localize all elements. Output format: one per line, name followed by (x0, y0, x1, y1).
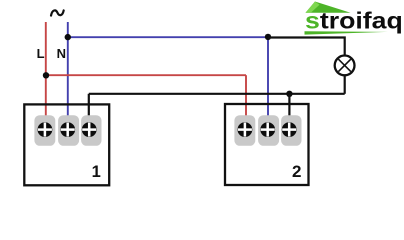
wire black switch 1 terminal 3 riser (88, 94, 90, 116)
switch 2 screw 1 (238, 122, 253, 137)
wire N neutral vertical (blue) from source to switch 1 terminal 2 (67, 22, 69, 116)
wire L phase horizontal (red) to switch 2 (46, 74, 246, 76)
switch 1 terminal block 3 (81, 115, 101, 146)
svg-text:N: N (57, 46, 66, 61)
switch 2 screw 3 (282, 122, 297, 137)
node C junction on L wire (43, 72, 49, 78)
switch 2 terminal block 2 (258, 115, 279, 146)
wire black switch 2 terminal 3 drop (288, 94, 290, 116)
switch 1 terminal block 2 (58, 115, 79, 146)
AC source tilde symbol (51, 10, 64, 15)
wire black bottom horizontal return (89, 93, 345, 95)
logo underline swoosh (305, 31, 389, 34)
node D junction on return wire (286, 91, 292, 97)
wire red vertical drop to switch 2 terminal 1 (245, 75, 247, 116)
switch box 2 (225, 104, 309, 185)
svg-text:stroifaq: stroifaq (305, 8, 403, 34)
switch 2 terminal block 3 (281, 115, 301, 146)
wire blue vertical drop to switch 2 terminal 2 (267, 37, 269, 116)
wire N neutral horizontal (blue) to node B (68, 36, 268, 38)
wire black lamp bottom drop (344, 76, 346, 94)
wire L phase vertical (red) from source to switch 1 terminal 1 (45, 22, 47, 116)
switch 2 terminal block 1 (234, 115, 255, 146)
svg-text:1: 1 (92, 163, 101, 181)
switch 1 terminal block 1 (34, 115, 55, 146)
switch 1 screw 2 (60, 122, 75, 137)
node A junction on N wire (65, 34, 71, 40)
switch 1 screw 3 (82, 122, 97, 137)
switch 2 screw 2 (260, 122, 275, 137)
switch 1 screw 1 (38, 122, 53, 137)
svg-text:2: 2 (292, 162, 301, 181)
switch box 1 (24, 104, 109, 185)
node B junction blue to black (265, 34, 271, 40)
svg-text:L: L (37, 46, 45, 61)
wire black top to lamp (268, 38, 345, 56)
lamp EL1 (335, 56, 355, 76)
logo roof (306, 2, 351, 13)
